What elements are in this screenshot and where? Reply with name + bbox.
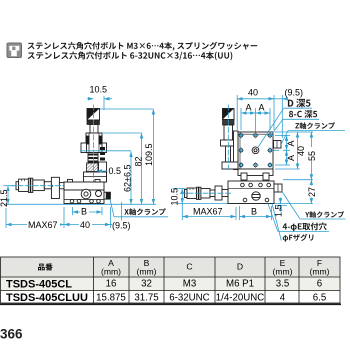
horizontal micrometer (right view) rings <box>197 187 199 199</box>
svg-text:B: B <box>81 207 87 217</box>
plate center lines <box>233 149 279 151</box>
plate holes <box>239 134 271 167</box>
label D 深5 <box>258 108 284 148</box>
plate hole crosshairs <box>238 134 244 136</box>
dimension 109.5 <box>100 108 153 110</box>
vertical micrometer knurled ring <box>87 163 99 172</box>
table row 1 <box>6 278 72 290</box>
horizontal micrometer (right view) spindle <box>210 190 215 197</box>
Z clamp screw <box>274 141 282 149</box>
horizontal micrometer (right view) knob <box>187 188 197 199</box>
stage body upper plate <box>64 182 104 190</box>
vertical micrometer (right view) ratchet band <box>223 120 235 126</box>
plate inner edge lines <box>238 133 273 135</box>
barrel clamp wings <box>81 143 87 153</box>
svg-text:366: 366 <box>0 327 23 342</box>
vertical micrometer barrel <box>86 133 102 153</box>
svg-text:40: 40 <box>296 146 306 156</box>
svg-text:6-32UNC: 6-32UNC <box>169 292 209 303</box>
svg-text:D: D <box>237 262 243 272</box>
table row2 background <box>1 291 341 304</box>
stage drive circle <box>81 189 91 199</box>
label X軸クランプ <box>110 199 114 217</box>
svg-text:M6 P1: M6 P1 <box>226 278 254 289</box>
plate center hole <box>252 147 259 154</box>
label 4-φE取付穴 <box>268 204 278 232</box>
svg-text:MAX67: MAX67 <box>28 220 58 230</box>
svg-text:31.75: 31.75 <box>134 292 158 303</box>
svg-text:C: C <box>186 262 192 272</box>
table row 2 <box>6 292 88 304</box>
dimension (9.5) top right <box>281 95 283 138</box>
svg-text:(mm): (mm) <box>272 267 292 277</box>
table header background <box>1 257 341 277</box>
label 8-C 深5 <box>271 119 283 136</box>
horizontal micrometer (right view) screw stub <box>222 190 228 197</box>
svg-text:TSDS-405CLUU: TSDS-405CLUU <box>6 292 88 304</box>
svg-text:TSDS-405CL: TSDS-405CL <box>6 278 72 290</box>
mid plate <box>238 169 273 176</box>
svg-text:21.5: 21.5 <box>0 189 9 207</box>
svg-text:82: 82 <box>133 156 143 166</box>
svg-text:109.5: 109.5 <box>144 143 154 166</box>
X micrometer center line (right view) <box>180 192 232 194</box>
vertical micrometer ratchet band <box>87 120 100 125</box>
vertical micrometer (right view) knob <box>223 109 235 120</box>
svg-text:55: 55 <box>307 151 317 161</box>
svg-text:6.5: 6.5 <box>313 292 326 303</box>
label φFザグリ <box>272 204 281 241</box>
svg-text:10.5: 10.5 <box>170 188 180 206</box>
label Y軸クランプ <box>282 192 300 220</box>
svg-text:1/4-20UNC: 1/4-20UNC <box>216 292 264 303</box>
wire: bottom reference extension line <box>4 203 156 205</box>
top plate (40x40) <box>238 132 273 169</box>
vertical micrometer knob <box>87 109 100 121</box>
dimension 40 (right side) <box>275 131 300 133</box>
svg-text:4: 4 <box>280 292 286 303</box>
dimension line MAX67 / 40 / (9.5) <box>5 208 7 228</box>
stage screws <box>70 199 74 203</box>
horizontal micrometer spindle <box>44 182 51 189</box>
svg-text:27: 27 <box>307 187 317 197</box>
base (Y stage) <box>228 181 274 204</box>
vertical micrometer (right view) foot <box>222 162 238 169</box>
Z micrometer center line <box>93 105 95 183</box>
table header text <box>38 258 330 277</box>
svg-text:16: 16 <box>106 278 117 289</box>
svg-text:62±6.5: 62±6.5 <box>122 165 132 192</box>
horizontal micrometer barrel <box>33 180 45 191</box>
vertical micrometer (right view) stem <box>226 146 231 162</box>
stage side screw circle <box>96 191 102 197</box>
X micrometer center line <box>10 185 70 187</box>
svg-text:(mm): (mm) <box>101 267 121 277</box>
horizontal micrometer (right view) end cap <box>185 190 188 198</box>
horizontal micrometer rings <box>28 178 30 192</box>
svg-text:A: A <box>286 155 296 161</box>
dimension 21.5 (left) <box>4 185 16 187</box>
table grid <box>1 257 341 303</box>
vertical micrometer (right view) barrel <box>224 125 233 140</box>
svg-text:(9.5): (9.5) <box>285 88 304 98</box>
svg-text:(mm): (mm) <box>136 267 156 277</box>
svg-text:15.875: 15.875 <box>96 292 126 303</box>
svg-text:32: 32 <box>141 278 152 289</box>
stage body lower block <box>64 190 104 204</box>
dimension 27 (right side) <box>310 180 312 204</box>
dimension 82 <box>102 132 142 134</box>
Y clamp screw <box>274 184 282 192</box>
svg-text:A: A <box>246 103 252 113</box>
svg-text:B: B <box>251 207 257 217</box>
Y micrometer center line (vertical) <box>227 105 229 171</box>
dimension 1.5 <box>275 204 287 206</box>
dimension 10.5 (top) <box>103 96 105 110</box>
horizontal micrometer mount block <box>51 177 59 198</box>
vertical micrometer stem <box>90 125 98 134</box>
note text line 1 <box>28 42 258 51</box>
svg-text:MAX67: MAX67 <box>193 207 223 217</box>
dimension A A (right side) <box>275 134 290 136</box>
note icon (bolt pictogram) <box>7 43 22 58</box>
dimension 0.5 <box>97 170 108 172</box>
Z bracket base <box>84 172 107 182</box>
svg-text:A: A <box>259 103 265 113</box>
bracket arm screws <box>100 147 105 150</box>
dimension 62±6.5 <box>80 150 131 152</box>
Z bracket arm <box>99 162 107 182</box>
svg-text:10.5: 10.5 <box>90 85 108 95</box>
svg-text:A: A <box>286 140 296 146</box>
svg-text:(9.5): (9.5) <box>112 220 131 230</box>
label Z軸クランプ <box>281 131 288 145</box>
dimension A A (top) <box>240 108 242 130</box>
dimension MAX67 / B (right view bottom) <box>181 204 183 220</box>
micrometer mount bracket strip <box>234 131 239 170</box>
vertical micrometer lock nut (striped) <box>88 153 98 164</box>
horizontal micrometer (right view) mount block <box>215 186 222 200</box>
svg-text:(mm): (mm) <box>309 267 329 277</box>
vertical micrometer (right view) flange <box>221 140 237 146</box>
svg-text:40: 40 <box>248 88 258 98</box>
horizontal micrometer end cap <box>16 182 19 190</box>
svg-text:40: 40 <box>80 220 90 230</box>
horizontal micrometer (right view) barrel <box>201 189 210 199</box>
dimension 10.5 (left of right view) <box>173 187 186 189</box>
svg-text:6: 6 <box>317 278 322 289</box>
X clamp screw <box>104 192 110 199</box>
svg-text:0.5: 0.5 <box>109 166 122 176</box>
table row1 background <box>1 277 341 291</box>
horizontal micrometer screw stub <box>59 183 67 189</box>
svg-text:3.5: 3.5 <box>276 278 289 289</box>
note text line 2 <box>28 51 233 60</box>
dimension 55 (right side) <box>300 131 313 133</box>
dimension B (left view) <box>72 207 74 215</box>
dimension 40 (top of right view) <box>236 95 238 130</box>
wire: bottom reference extension line (right) <box>177 203 313 205</box>
horizontal micrometer knob <box>19 179 29 191</box>
svg-text:M3: M3 <box>183 278 196 289</box>
